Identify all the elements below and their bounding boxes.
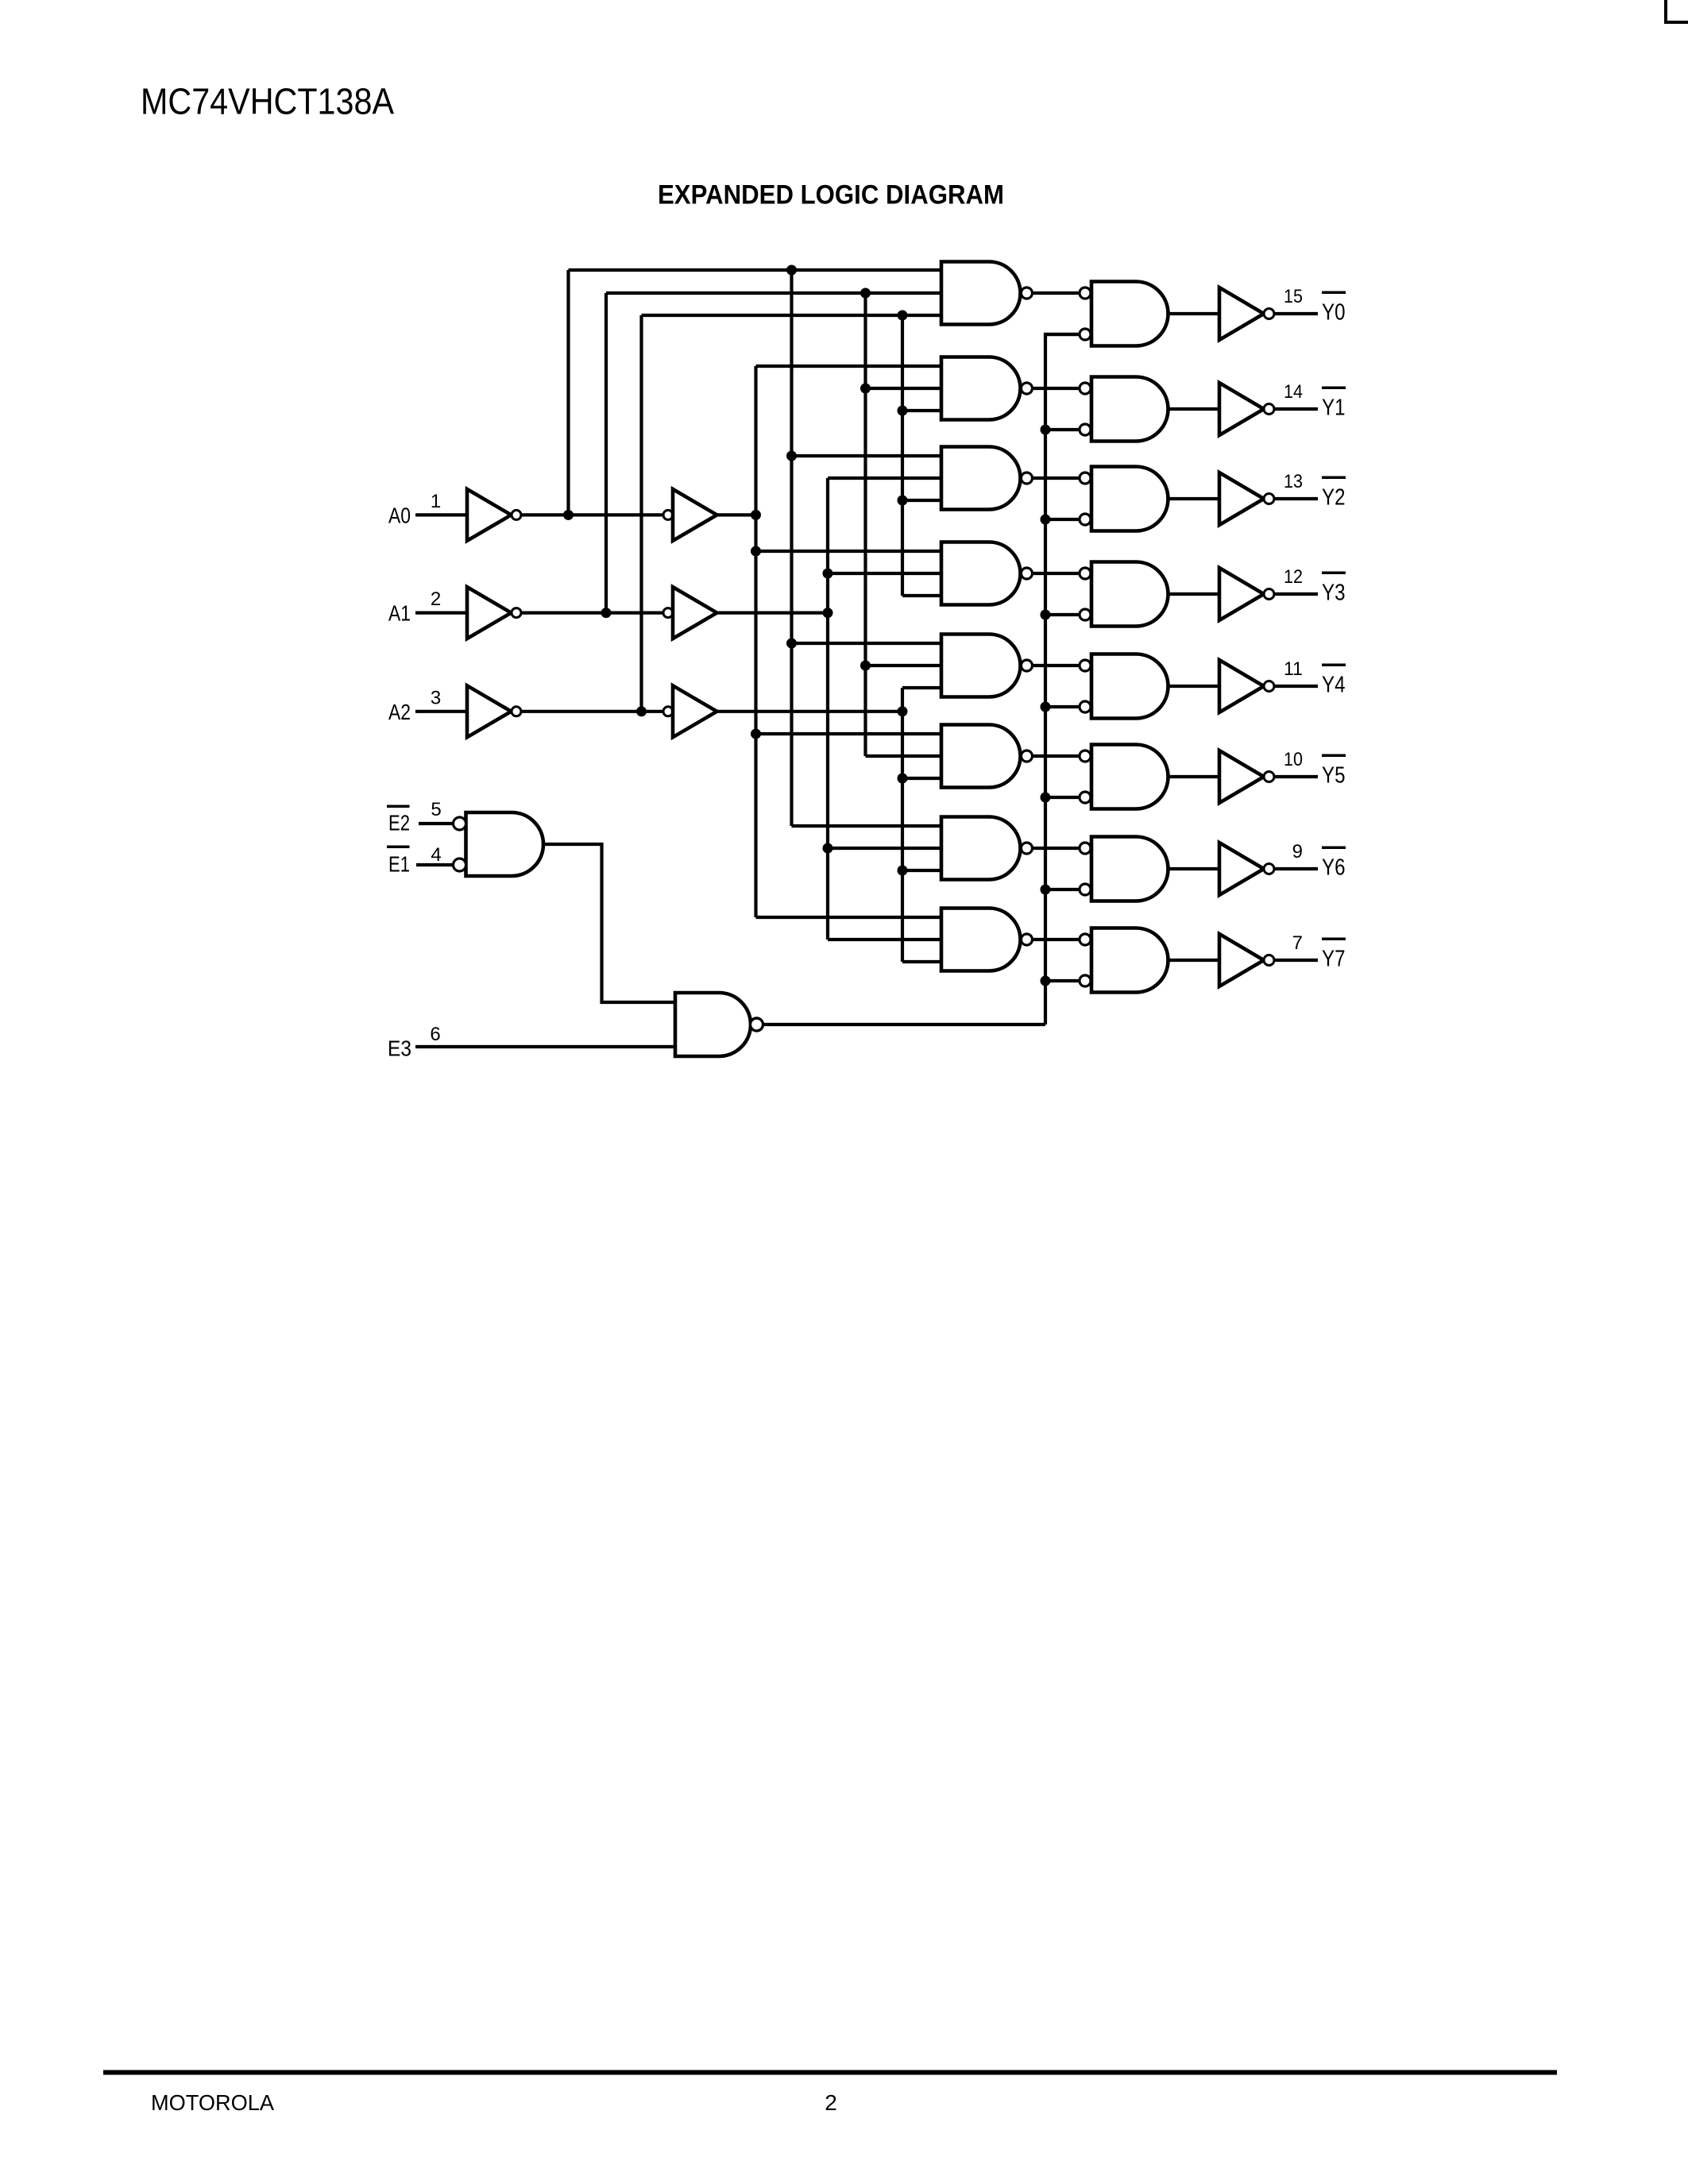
- NAND gate G1 (3-input, minterm 1): [941, 357, 1033, 420]
- wire Y4 output lead: [1274, 685, 1318, 688]
- wire A2 input lead: [415, 710, 467, 713]
- junction on vertical x=996.5 y=574: [786, 451, 797, 461]
- net label Y3 with overline: [1322, 572, 1346, 606]
- AND gate H7 (2 bubbled inputs): [1080, 928, 1168, 993]
- wire A0 true output to bus: [717, 513, 756, 516]
- wire H4 output to inverter: [1168, 685, 1220, 688]
- buffer A2 second stage (bubbled input): [663, 685, 717, 737]
- wire gate G3 input at y=750: [902, 594, 941, 597]
- svg-text:1: 1: [431, 491, 441, 512]
- svg-text:9: 9: [1292, 841, 1303, 862]
- NAND gate G3 (3-input, minterm 3): [941, 542, 1033, 605]
- wire gate G5 input at y=924: [756, 732, 942, 735]
- svg-text:E3: E3: [388, 1036, 411, 1061]
- svg-text:7: 7: [1292, 932, 1303, 954]
- wire A2-bar vertical bus: [901, 315, 904, 596]
- wire G4 output to H4 upper input: [1033, 664, 1080, 667]
- net label Y2 with overline: [1322, 477, 1346, 511]
- junction A1-bar on top bus: [860, 288, 871, 299]
- AND gate G8 enable (E1,E2 bubbled inputs): [454, 812, 544, 876]
- wire gate G2 input at y=630: [902, 499, 941, 502]
- wire A2-bar riser: [639, 315, 643, 712]
- wire A0-bar vertical bus: [790, 270, 793, 826]
- wire Y5 output lead: [1274, 775, 1318, 778]
- svg-text:10: 10: [1284, 749, 1303, 770]
- wire gate G6 input at y=1068: [828, 847, 941, 850]
- wire gate G3 input at y=694: [756, 550, 942, 553]
- junction on vertical x=1042 y=722: [823, 569, 833, 579]
- svg-text:Y5: Y5: [1322, 763, 1346, 789]
- wire gate G4 input at y=810: [792, 642, 942, 645]
- output inverter U0: [1219, 287, 1274, 340]
- registration corner mark (top right): [1664, 0, 1688, 24]
- wire E1 input lead: [416, 863, 454, 866]
- wire Y2 output lead: [1274, 497, 1318, 500]
- svg-text:MC74VHCT138A: MC74VHCT138A: [141, 81, 394, 122]
- svg-text:14: 14: [1284, 381, 1303, 403]
- wire H6 output to inverter: [1168, 867, 1220, 870]
- junction A1-true source: [823, 608, 833, 618]
- wire G0 output to H0 upper input: [1033, 291, 1080, 295]
- wire A1 input lead: [415, 611, 467, 614]
- svg-text:Y3: Y3: [1322, 581, 1346, 606]
- svg-text:Y0: Y0: [1322, 300, 1346, 326]
- wire H5 output to inverter: [1168, 775, 1220, 778]
- junction on vertical x=1042 y=1068: [823, 843, 833, 854]
- AND gate H3 (2 bubbled inputs): [1080, 562, 1168, 627]
- wire Y7 output lead: [1274, 959, 1318, 962]
- wire H2 output to inverter: [1168, 497, 1220, 500]
- wire enable vertical bus: [1045, 334, 1080, 1024]
- wire G1 output to H1 upper input: [1033, 387, 1080, 390]
- NAND gate G9 (E3 and enable): [675, 993, 763, 1056]
- junction A1-bar tap on A1 row: [601, 608, 612, 618]
- svg-text:Y4: Y4: [1322, 673, 1346, 698]
- junction A0-true source: [751, 510, 761, 520]
- AND gate H4 (2 bubbled inputs): [1080, 654, 1168, 719]
- junction A2-bar tap on A2 row: [636, 706, 647, 716]
- junction enable vertical at row 7: [1041, 976, 1051, 986]
- svg-text:Y7: Y7: [1322, 947, 1346, 972]
- wire gate G1 input at y=517: [902, 409, 941, 412]
- wire enable tap to H6 lower input: [1045, 888, 1080, 891]
- junction on vertical x=1136 y=630: [898, 496, 908, 506]
- wire bus A1-bar horizontal (to gate G0 input 2): [606, 291, 941, 295]
- wire enable tap to H3 lower input: [1045, 613, 1080, 616]
- wire G5 output to H5 upper input: [1033, 754, 1080, 758]
- wire gate G7 input at y=1211: [902, 960, 941, 963]
- junction A2-bar on top bus: [898, 311, 908, 321]
- svg-text:15: 15: [1284, 286, 1303, 307]
- junction on vertical x=1089.5 y=489: [860, 384, 871, 394]
- wire gate G5 input at y=980: [902, 777, 941, 780]
- junction enable vertical at row 3: [1041, 610, 1051, 620]
- svg-text:E1: E1: [388, 852, 410, 877]
- junction enable vertical at row 4: [1041, 702, 1051, 712]
- wire G3 output to H3 upper input: [1033, 572, 1080, 575]
- svg-text:11: 11: [1284, 658, 1303, 680]
- wire enable tap to H2 lower input: [1045, 518, 1080, 521]
- wire enable tap to H7 lower input: [1045, 979, 1080, 982]
- junction A0-bar on top bus: [786, 265, 797, 276]
- wire H3 output to inverter: [1168, 592, 1220, 596]
- wire A1-bar vertical bus: [863, 293, 867, 756]
- wire A0 input lead: [415, 513, 467, 516]
- wire G8 output to G9 upper input: [543, 844, 675, 1002]
- svg-text:13: 13: [1284, 471, 1303, 492]
- net label E1 with overline: [387, 846, 410, 877]
- net label Y1 with overline: [1322, 387, 1346, 421]
- inverter A2 first stage: [467, 685, 521, 737]
- net label E2 with overline: [387, 805, 410, 835]
- junction enable vertical at row 1: [1041, 425, 1051, 435]
- svg-text:MOTOROLA: MOTOROLA: [151, 2090, 274, 2115]
- wire A1 complement row: [521, 611, 663, 614]
- net label Y4 with overline: [1322, 664, 1346, 698]
- net label Y6 with overline: [1322, 847, 1346, 881]
- svg-text:2: 2: [431, 588, 441, 610]
- svg-text:4: 4: [431, 844, 441, 866]
- inverter A0 first stage: [467, 489, 521, 541]
- wire E3 input lead: [415, 1045, 675, 1048]
- wire A1 true output to bus: [717, 611, 829, 614]
- svg-text:EXPANDED LOGIC DIAGRAM: EXPANDED LOGIC DIAGRAM: [658, 180, 1004, 210]
- wire enable tap to H1 lower input: [1045, 428, 1080, 431]
- AND gate H0 (2 bubbled inputs): [1080, 282, 1168, 346]
- NAND gate G7 (3-input, minterm 7): [941, 909, 1033, 971]
- svg-text:A0: A0: [388, 503, 411, 527]
- svg-text:2: 2: [825, 2090, 837, 2115]
- junction on vertical x=1136 y=1096: [898, 866, 908, 876]
- svg-text:A1: A1: [388, 601, 411, 626]
- wire G2 output to H2 upper input: [1033, 477, 1080, 480]
- wire G7 output to H7 upper input: [1033, 938, 1080, 941]
- junction on vertical x=1089.5 y=838: [860, 661, 871, 671]
- wire gate G4 input at y=838: [866, 664, 942, 667]
- wire gate G6 input at y=1096: [902, 869, 941, 872]
- wire gate G7 input at y=1155: [756, 916, 942, 919]
- wire bus A0-bar horizontal (to gate G0 input 1): [569, 268, 942, 272]
- wire gate G2 input at y=602: [828, 477, 941, 480]
- AND gate H6 (2 bubbled inputs): [1080, 837, 1168, 901]
- AND gate H2 (2 bubbled inputs): [1080, 467, 1168, 531]
- buffer A1 second stage (bubbled input): [663, 587, 717, 639]
- wire enable tap to H4 lower input: [1045, 705, 1080, 708]
- wire H0 output to inverter: [1168, 312, 1220, 315]
- output inverter U6: [1219, 843, 1274, 895]
- svg-text:Y6: Y6: [1322, 855, 1346, 881]
- junction on vertical x=951.5 y=924: [751, 729, 761, 739]
- buffer A0 second stage (bubbled input): [663, 489, 717, 541]
- wire gate G5 input at y=952: [866, 754, 942, 758]
- wire gate G6 input at y=1040: [792, 824, 942, 828]
- AND gate H1 (2 bubbled inputs): [1080, 377, 1168, 442]
- junction on vertical x=1136 y=517: [898, 406, 908, 416]
- wire G6 output to H6 upper input: [1033, 847, 1080, 850]
- svg-text:Y2: Y2: [1322, 485, 1346, 511]
- junction on vertical x=996.5 y=810: [786, 639, 797, 649]
- wire Y0 output lead: [1274, 312, 1318, 315]
- NAND gate G6 (3-input, minterm 6): [941, 817, 1033, 880]
- wire gate G3 input at y=722: [828, 572, 941, 575]
- net label Y7 with overline: [1322, 938, 1346, 972]
- wire G9 output to enable vertical: [763, 1023, 1045, 1026]
- junction enable vertical at row 5: [1041, 793, 1051, 803]
- output inverter U3: [1219, 568, 1274, 620]
- output inverter U7: [1219, 934, 1274, 986]
- wire gate G1 input at y=461: [756, 365, 942, 368]
- wire Y3 output lead: [1274, 592, 1318, 596]
- NAND gate G0 (3-input, minterm 0): [941, 262, 1033, 325]
- wire H7 output to inverter: [1168, 959, 1220, 962]
- svg-text:6: 6: [430, 1024, 440, 1045]
- output inverter U4: [1219, 660, 1274, 712]
- svg-text:Y1: Y1: [1322, 396, 1346, 421]
- junction on vertical x=1136 y=980: [898, 774, 908, 784]
- output inverter U5: [1219, 751, 1274, 803]
- NAND gate G2 (3-input, minterm 2): [941, 447, 1033, 510]
- wire enable tap to H5 lower input: [1045, 796, 1080, 799]
- wire Y1 output lead: [1274, 407, 1318, 411]
- junction enable vertical at row 2: [1041, 515, 1051, 525]
- wire A2-true vertical bus: [901, 688, 904, 962]
- output inverter U1: [1219, 383, 1274, 435]
- wire bus A2-bar horizontal (to gate G0 input 3): [642, 314, 942, 317]
- wire gate G7 input at y=1183: [828, 938, 941, 941]
- AND gate H5 (2 bubbled inputs): [1080, 745, 1168, 809]
- junction A0-bar tap on A0 row: [563, 510, 574, 520]
- wire gate G4 input at y=866: [902, 686, 941, 689]
- wire A2 true output to bus: [717, 710, 903, 713]
- wire A2 complement row: [521, 710, 663, 713]
- NAND gate G4 (3-input, minterm 4): [941, 635, 1033, 697]
- wire gate G1 input at y=489: [866, 387, 942, 390]
- output inverter U2: [1219, 473, 1274, 525]
- wire gate G2 input at y=574: [792, 454, 942, 457]
- wire enable tap to H0 lower input: [1045, 333, 1080, 336]
- NAND gate G5 (3-input, minterm 5): [941, 725, 1033, 788]
- footer rule: [103, 2070, 1557, 2075]
- svg-text:E2: E2: [388, 811, 410, 835]
- wire A0 complement row: [521, 513, 663, 516]
- wire A1-true vertical bus: [826, 478, 829, 940]
- junction on vertical x=951.5 y=694: [751, 546, 761, 557]
- inverter A1 first stage: [467, 587, 521, 639]
- svg-text:12: 12: [1284, 566, 1303, 588]
- net label Y5 with overline: [1322, 754, 1346, 789]
- net label Y0 with overline: [1322, 291, 1346, 326]
- wire E2 input lead: [419, 822, 454, 825]
- wire H1 output to inverter: [1168, 407, 1220, 411]
- junction A2-true source: [898, 706, 908, 716]
- svg-text:3: 3: [431, 687, 441, 708]
- svg-text:5: 5: [431, 799, 441, 820]
- wire Y6 output lead: [1274, 867, 1318, 870]
- wire A1-bar riser: [605, 293, 608, 613]
- junction enable vertical at row 6: [1041, 885, 1051, 895]
- wire A0-true vertical bus: [754, 366, 757, 917]
- wire A0-bar riser: [566, 270, 570, 515]
- svg-text:A2: A2: [388, 700, 411, 724]
